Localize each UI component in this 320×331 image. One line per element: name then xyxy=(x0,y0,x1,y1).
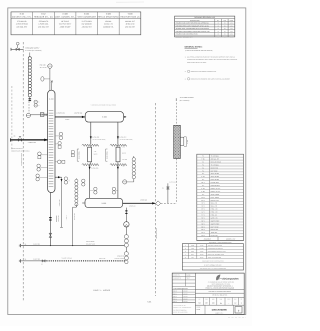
label to flare xyxy=(176,96,194,102)
traced line dots xyxy=(46,260,125,261)
svg-text:1 FL: 1 FL xyxy=(94,151,97,153)
svg-text:REV 2: REV 2 xyxy=(173,296,177,298)
pipe feed xyxy=(10,138,47,141)
svg-text:(TO E-1A TUBE SIDE): (TO E-1A TUBE SIDE) xyxy=(92,139,106,141)
company address xyxy=(208,281,234,285)
svg-text:JD: JD xyxy=(217,25,219,27)
svg-text:VENT CONDENSER: VENT CONDENSER xyxy=(77,16,96,19)
svg-text:JD: JD xyxy=(217,34,219,36)
svg-text:AirComposites: AirComposites xyxy=(221,278,239,281)
inline trap strainer xyxy=(40,113,44,117)
svg-text:3-OVHD-101: 3-OVHD-101 xyxy=(56,112,65,114)
svg-text:2-PRD-110: 2-PRD-110 xyxy=(140,200,147,202)
svg-text:XFER PUMP: XFER PUMP xyxy=(211,173,219,175)
svg-text:RECOVERED PRODUCT OUT: RECOVERED PRODUCT OUT xyxy=(208,251,226,253)
equipment column E-12 xyxy=(34,13,53,29)
valve bottoms xyxy=(49,233,52,237)
svg-text:P-1: P-1 xyxy=(202,173,204,175)
pipe product outlet xyxy=(123,202,156,204)
pipe product dashed continuation xyxy=(161,202,177,204)
equipment column C-100 xyxy=(55,13,76,29)
exchanger E-1A body xyxy=(88,145,92,164)
valve drain branch xyxy=(167,187,170,189)
end flanges FA-1 xyxy=(29,98,32,101)
svg-text:SOLVENT VAPOR LINE: SOLVENT VAPOR LINE xyxy=(208,245,222,247)
pipe flare dashed upper xyxy=(176,103,178,126)
svg-text:4/09 JD: 4/09 JD xyxy=(183,296,187,298)
svg-text:LO: LO xyxy=(41,264,43,266)
label drop A xyxy=(92,137,106,141)
equipment summary table xyxy=(11,12,141,35)
pipe chain riser xyxy=(29,53,31,102)
svg-text:THIS DRAWING IS THE: THIS DRAWING IS THE xyxy=(173,305,186,307)
svg-text:4/09 JD: 4/09 JD xyxy=(183,301,187,303)
svg-text:E-1AB: E-1AB xyxy=(200,248,204,250)
flex hose top E-1B xyxy=(110,144,126,146)
svg-text:4/09 JD: 4/09 JD xyxy=(183,293,187,295)
svg-text:DESCRIPTION: DESCRIPTION xyxy=(190,20,200,22)
svg-text:E-1B: E-1B xyxy=(201,191,204,193)
svg-text:ALL PIPING SHOWN OUTSIDE OF TH: ALL PIPING SHOWN OUTSIDE OF THE DASHED B… xyxy=(187,56,235,58)
svg-text:EAST GREENBUSH, NY 12061: EAST GREENBUSH, NY 12061 xyxy=(212,283,231,285)
svg-text:COPYRIGHT 2009 - ALL RIGHTS RE: COPYRIGHT 2009 - ALL RIGHTS RESERVED xyxy=(200,268,226,270)
instrument bubble LG xyxy=(123,180,134,184)
svg-text:REFLUX DRUM: REFLUX DRUM xyxy=(211,161,222,163)
label E-1A right xyxy=(94,151,98,156)
svg-text:BACK: BACK xyxy=(122,152,126,154)
instrument squares TW xyxy=(71,151,74,157)
instrument bubble PSE xyxy=(48,64,52,68)
svg-text:SP-1: SP-1 xyxy=(201,220,204,222)
svg-text:DRAWING REVISION LOG: DRAWING REVISION LOG xyxy=(194,16,215,19)
equipment column T-100 xyxy=(120,13,139,29)
svg-text:CTRL 1 IN: CTRL 1 IN xyxy=(211,212,218,214)
battery limit dashed line left xyxy=(22,42,24,302)
svg-text:FILL/MU CONN.: FILL/MU CONN. xyxy=(115,258,125,260)
svg-text:PROCESS & INSTRUMENTATION DIAG: PROCESS & INSTRUMENTATION DIAGRAM xyxy=(206,288,235,290)
svg-text:FC: FC xyxy=(14,135,16,137)
logo xyxy=(216,275,239,281)
svg-text:TV-1: TV-1 xyxy=(201,214,204,216)
svg-text:SHT: SHT xyxy=(234,299,237,301)
title block left column xyxy=(172,273,195,314)
svg-text:XV-1: XV-1 xyxy=(201,203,204,205)
svg-text:OPERATOR: OPERATOR xyxy=(117,255,124,257)
svg-text:SET 14.7P: SET 14.7P xyxy=(40,67,47,69)
svg-text:PSE-100: PSE-100 xyxy=(40,64,46,66)
svg-text:TEMP GA.: TEMP GA. xyxy=(211,232,218,234)
connector diamond xyxy=(156,201,161,206)
bridle drain pipe xyxy=(73,205,77,246)
svg-text:LV-1: LV-1 xyxy=(202,212,205,214)
svg-text:REV 4: REV 4 xyxy=(173,301,177,303)
instrument cluster TI-104 xyxy=(55,132,63,139)
junction dot bottoms xyxy=(50,245,51,246)
svg-text:CONDENSATE / REFLUX: CONDENSATE / REFLUX xyxy=(208,248,223,250)
svg-text:V-100: V-100 xyxy=(200,245,204,247)
instrument cluster LT-101 xyxy=(38,152,48,159)
svg-text:COLUMN C-100 AND AUXILIARIES: COLUMN C-100 AND AUXILIARIES xyxy=(209,291,231,293)
bracket label bottoms xyxy=(56,215,60,222)
svg-text:2-RCY-112: 2-RCY-112 xyxy=(99,258,106,260)
valve feed xyxy=(18,137,22,142)
svg-text:CONDENSER: CONDENSER xyxy=(211,185,220,187)
svg-text:BALL 2 IN: BALL 2 IN xyxy=(211,206,218,208)
svg-text:2-CND-103: 2-CND-103 xyxy=(92,137,99,139)
level bridle line xyxy=(133,156,135,182)
svg-text:CW S/R: CW S/R xyxy=(122,159,127,161)
svg-text:SOLVENT STILL KTL.: SOLVENT STILL KTL. xyxy=(12,16,32,19)
instrument bubbles bridle top xyxy=(82,179,85,186)
svg-text:T-3: T-3 xyxy=(202,170,204,172)
svg-text:DWG 1 : M2000: DWG 1 : M2000 xyxy=(93,289,110,292)
svg-text:E-101: E-101 xyxy=(84,13,89,16)
pipe vent riser xyxy=(49,68,51,90)
svg-text:(NOTE 1): (NOTE 1) xyxy=(119,260,125,262)
svg-text:40 CAMBRIDGE VALLEY DRIVE, SUI: 40 CAMBRIDGE VALLEY DRIVE, SUITE 200 xyxy=(208,281,234,283)
pipe side draw xyxy=(55,176,63,227)
svg-text:FSCM: FSCM xyxy=(227,299,230,301)
svg-text:PROPERTY OF AIRCOMPOSITES.: PROPERTY OF AIRCOMPOSITES. xyxy=(173,307,192,309)
vessel V-200 xyxy=(85,198,123,207)
svg-text:RECYCLE / MAKEUP LINE: RECYCLE / MAKEUP LINE xyxy=(208,254,224,256)
svg-text:T-2: T-2 xyxy=(202,164,204,166)
svg-text:PV-1: PV-1 xyxy=(201,209,204,211)
pipe E-1B outlet xyxy=(117,165,119,199)
label chain bubbles xyxy=(38,102,40,108)
valve traced line xyxy=(42,260,45,262)
svg-text:REV 3: REV 3 xyxy=(173,299,177,301)
svg-text:RECEIVER TANK (J): RECEIVER TANK (J) xyxy=(120,16,139,19)
svg-text:REFLUX DRUM HORIZ.: REFLUX DRUM HORIZ. xyxy=(97,16,119,19)
svg-text:UTILITY CONNECTION LIST: UTILITY CONNECTION LIST xyxy=(204,264,222,266)
svg-text:NC: NC xyxy=(162,188,164,190)
svg-text:STEAM TRACED: STEAM TRACED xyxy=(62,257,73,259)
svg-text:FROM PLANT (BY OTHERS): FROM PLANT (BY OTHERS) xyxy=(11,150,30,152)
svg-text:SIGHT PORT: SIGHT PORT xyxy=(211,223,220,225)
title block bottom row xyxy=(196,305,242,314)
svg-text:GATE 2 IN: GATE 2 IN xyxy=(211,217,218,219)
drum right nozzle xyxy=(124,116,127,118)
label vent instrument xyxy=(40,64,47,69)
battery limit dashed line inner xyxy=(11,86,13,150)
svg-text:BY: BY xyxy=(217,20,219,22)
svg-text:INSUL.: INSUL. xyxy=(65,119,70,121)
svg-text:SOLVENT RECOVERY SYSTEM NO. 2: SOLVENT RECOVERY SYSTEM NO. 2 xyxy=(207,286,233,288)
svg-text:4/09: 4/09 xyxy=(230,31,233,33)
level bridle V-200 xyxy=(75,178,78,207)
equipment column E-10 xyxy=(12,13,32,29)
pipe bottoms transfer xyxy=(21,245,127,247)
svg-text:SPENT SOLVENT: SPENT SOLVENT xyxy=(11,148,23,150)
svg-text:CHK: CHK xyxy=(223,20,226,22)
svg-text:E-1: E-1 xyxy=(202,185,204,187)
column trays xyxy=(49,111,54,187)
svg-text:INDICATES INSTRUMENT AIR SUPPL: INDICATES INSTRUMENT AIR SUPPLY, 80 PSIG… xyxy=(191,78,231,80)
svg-text:RECEIVER: RECEIVER xyxy=(211,167,218,169)
svg-text:V-2: V-2 xyxy=(202,167,204,169)
svg-text:PRD: PRD xyxy=(191,251,194,253)
title block grid row xyxy=(195,298,244,306)
instrument bubbles pump discharge xyxy=(124,235,128,248)
svg-text:(TO E-1B TUBE SIDE): (TO E-1B TUBE SIDE) xyxy=(119,139,133,141)
svg-text:RECOVERED: RECOVERED xyxy=(86,241,94,243)
pipe drain branch xyxy=(167,183,169,203)
column top nozzle xyxy=(51,81,53,91)
svg-text:P-1A: P-1A xyxy=(201,176,204,178)
exchanger E-1B body xyxy=(116,145,120,164)
junction dot drain xyxy=(72,245,73,246)
bracket label E-1B xyxy=(106,149,109,161)
equipment column E-101 xyxy=(77,13,96,29)
svg-text:E-1B COND.: E-1B COND. xyxy=(107,151,109,160)
svg-text:SHOWN FOR REFERENCE ONLY AND S: SHOWN FOR REFERENCE ONLY AND SHALL BE FI… xyxy=(187,59,237,61)
svg-text:FLEX. HOSE: FLEX. HOSE xyxy=(211,197,220,199)
svg-text:CUSTOMER APPROVAL: CUSTOMER APPROVAL xyxy=(173,288,188,290)
svg-text:SIGHT PORT: SIGHT PORT xyxy=(211,220,220,222)
level bridle gauges xyxy=(132,158,135,179)
battery limit dashed line right xyxy=(154,103,156,296)
svg-text:4/09: 4/09 xyxy=(230,36,233,38)
svg-text:SCALE:: SCALE: xyxy=(196,307,201,309)
vessel left nozzle xyxy=(82,202,85,204)
svg-text:DATE: DATE xyxy=(230,20,233,22)
svg-text:DO NOT SCALE DRAWING.: DO NOT SCALE DRAWING. xyxy=(173,312,188,314)
svg-text:400 GAL JKT: 400 GAL JKT xyxy=(211,159,220,161)
sheet edge mark bottom xyxy=(228,317,246,319)
pipe traced recycle xyxy=(19,259,46,262)
label nitrogen supply xyxy=(25,47,42,52)
instrument bubbles beside chain xyxy=(34,100,38,107)
svg-text:CND: CND xyxy=(191,248,194,250)
svg-text:ASSEMBLY: ASSEMBLY xyxy=(204,238,211,240)
svg-text:BALL 2 IN: BALL 2 IN xyxy=(211,203,218,205)
svg-text:TM: TM xyxy=(224,28,226,30)
pipe pump suction xyxy=(125,208,127,264)
svg-text:TM: TM xyxy=(224,31,226,33)
svg-text:TM: TM xyxy=(224,34,226,36)
svg-text:PR-09-41 / JOB 2276-B: PR-09-41 / JOB 2276-B xyxy=(212,295,227,297)
svg-text:NONE: NONE xyxy=(196,309,200,311)
svg-text:4/09 JD: 4/09 JD xyxy=(183,299,187,301)
svg-text:RD-1: RD-1 xyxy=(201,226,205,228)
designation table xyxy=(182,244,243,270)
svg-text:CUSTOMER SCOPE: CUSTOMER SCOPE xyxy=(21,153,23,166)
vent condenser E-101 xyxy=(174,125,181,158)
instrument bubbles E-1B outlet xyxy=(112,187,118,194)
svg-text:VENDOR SCOPE: VENDOR SCOPE xyxy=(156,228,158,239)
svg-text:RUPT. DISC: RUPT. DISC xyxy=(211,226,219,228)
svg-text:COND. 21 FT2: COND. 21 FT2 xyxy=(211,191,221,193)
svg-text:E-12: E-12 xyxy=(41,13,45,16)
svg-text:T-1: T-1 xyxy=(202,156,204,158)
svg-text:HV-1: HV-1 xyxy=(201,217,204,219)
pipe drop to seal pot xyxy=(28,101,30,113)
svg-text:BACK: BACK xyxy=(94,153,98,155)
svg-text:V-100 REFLUX DRUM 150 GAL HORI: V-100 REFLUX DRUM 150 GAL HORIZ xyxy=(91,105,117,107)
pipe flare dashed lower xyxy=(176,159,178,204)
svg-text:4/09: 4/09 xyxy=(230,25,233,27)
pipe column bottoms xyxy=(49,193,51,246)
svg-text:2-PMP-113: 2-PMP-113 xyxy=(129,205,136,207)
flex hose bottom E-1B xyxy=(110,164,126,166)
pump P-100 xyxy=(124,222,129,227)
instrument cluster LI-102 xyxy=(37,164,48,171)
svg-text:XV-2: XV-2 xyxy=(201,206,204,208)
svg-text:CHECKED RH: CHECKED RH xyxy=(173,278,181,280)
svg-text:E-1A: E-1A xyxy=(201,188,204,190)
svg-text:E-10: E-10 xyxy=(20,13,24,16)
svg-text:SIZE: SIZE xyxy=(220,299,223,301)
svg-text:JD: JD xyxy=(217,23,219,25)
svg-text:4/09 JD: 4/09 JD xyxy=(183,291,187,293)
svg-text:VNT: VNT xyxy=(191,257,194,259)
svg-text:JD: JD xyxy=(217,31,219,33)
svg-text:DAY TANK: DAY TANK xyxy=(211,170,218,172)
svg-text:1 FL: 1 FL xyxy=(122,146,125,148)
flame arrestor element stack FA-1 xyxy=(28,57,31,97)
equipment column V-100 xyxy=(97,13,119,29)
instrument cluster PT-105 xyxy=(55,142,61,149)
svg-text:4/09: 4/09 xyxy=(230,34,233,36)
instrument bubbles pump lower xyxy=(124,252,128,264)
svg-text:JD: JD xyxy=(217,28,219,30)
svg-text:ALL RIGHTS RESERVED.: ALL RIGHTS RESERVED. xyxy=(173,309,187,311)
svg-text:RCY: RCY xyxy=(191,254,194,256)
control valve PV-1 xyxy=(16,42,19,50)
label drop B xyxy=(119,137,133,141)
svg-text:TIE: TIE xyxy=(24,259,26,261)
instrument cluster AT-106 xyxy=(55,160,65,164)
svg-text:TEMP: TEMP xyxy=(186,278,190,280)
off page connector bottoms xyxy=(19,244,20,247)
svg-text:REV 1: REV 1 xyxy=(173,293,177,295)
svg-text:3-OVHD-102: 3-OVHD-102 xyxy=(74,112,83,114)
svg-text:ENG: ENG xyxy=(212,299,215,301)
bracket label vent condenser xyxy=(184,137,189,147)
title block frame xyxy=(172,273,244,314)
pipe drum to exchanger A xyxy=(90,122,92,144)
svg-text:TM: TM xyxy=(224,36,226,38)
line list table xyxy=(197,154,244,240)
pipe overhead vapor xyxy=(55,116,85,118)
svg-text:FA-1: FA-1 xyxy=(201,182,204,184)
instrument bubble PI on riser xyxy=(41,77,50,81)
svg-text:E-101: E-101 xyxy=(187,140,189,144)
svg-text:E-1A COND.: E-1A COND. xyxy=(78,151,80,159)
svg-text:COND. 21 FT2: COND. 21 FT2 xyxy=(211,188,221,190)
svg-text:DWG 20-M2000: DWG 20-M2000 xyxy=(212,309,228,312)
svg-text:V-100: V-100 xyxy=(106,13,111,16)
svg-text:V-200: V-200 xyxy=(101,202,106,205)
instrument cluster LC-103 xyxy=(36,174,48,181)
drum V-100 xyxy=(85,112,123,123)
svg-text:INDICATES SOFTWARE CONNECTION.: INDICATES SOFTWARE CONNECTION. xyxy=(191,71,217,73)
svg-text:CTRL 1 IN: CTRL 1 IN xyxy=(211,209,218,211)
vent condenser side box xyxy=(180,137,184,145)
svg-text:2-CND-105: 2-CND-105 xyxy=(91,167,98,169)
svg-text:FEED PUMP: FEED PUMP xyxy=(211,179,219,181)
svg-text:1-SMP-108: 1-SMP-108 xyxy=(59,199,61,206)
svg-text:TM: TM xyxy=(224,25,226,27)
svg-text:PG-1: PG-1 xyxy=(201,229,205,231)
label feed source xyxy=(11,148,30,152)
svg-text:2-BTM-109: 2-BTM-109 xyxy=(58,215,60,222)
svg-text:P-2: P-2 xyxy=(202,179,204,181)
label traced right block xyxy=(115,255,125,262)
svg-text:FL-B: FL-B xyxy=(201,197,204,199)
svg-text:2-CND-104: 2-CND-104 xyxy=(119,137,126,139)
svg-text:VENT COND.: VENT COND. xyxy=(211,194,220,196)
svg-text:V-1: V-1 xyxy=(202,161,204,163)
drawing revision log table xyxy=(175,16,235,38)
svg-text:ABBREV. LIST: ABBREV. LIST xyxy=(226,238,235,240)
svg-text:4/09: 4/09 xyxy=(230,28,233,30)
flex hose bottom E-1A xyxy=(82,164,99,166)
column C-100 xyxy=(48,90,55,192)
drawing title xyxy=(195,286,244,298)
flange ticks xyxy=(45,114,46,116)
svg-text:FLAME: FLAME xyxy=(186,275,190,277)
svg-text:PRESS GA.: PRESS GA. xyxy=(211,229,219,231)
svg-text:DR: DR xyxy=(199,299,201,301)
svg-text:CONT. CONDEN. KTL.: CONT. CONDEN. KTL. xyxy=(55,16,76,19)
svg-text:1-VNT-115: 1-VNT-115 xyxy=(169,182,176,184)
svg-text:1/2: 1/2 xyxy=(234,303,236,305)
svg-text:T-1B: T-1B xyxy=(201,159,204,161)
svg-text:AND INSTALLED BY OTHERS.: AND INSTALLED BY OTHERS. xyxy=(187,62,207,64)
flex hose top E-1A xyxy=(82,144,99,146)
abbrev header cells xyxy=(197,237,244,244)
instrument bubbles side draw xyxy=(64,177,68,184)
svg-text:CHK: CHK xyxy=(205,299,208,301)
instrument bubbles E-1A outlet xyxy=(90,187,98,194)
general notes block xyxy=(185,46,238,81)
svg-text:C-100: C-100 xyxy=(49,97,54,100)
svg-text:3/4-DR-116: 3/4-DR-116 xyxy=(74,213,76,220)
pipe seal pot to column xyxy=(31,114,48,116)
svg-text:P-100: P-100 xyxy=(200,254,204,256)
svg-text:PS-1: PS-1 xyxy=(201,200,204,202)
svg-text:1-DR-114: 1-DR-114 xyxy=(66,214,68,220)
svg-text:E-101: E-101 xyxy=(200,257,204,259)
pipe drum to exchanger B xyxy=(117,122,119,144)
svg-text:TK, 150 GAL: TK, 150 GAL xyxy=(211,164,220,166)
svg-text:DRAWN TM: DRAWN TM xyxy=(173,275,179,277)
svg-text:C-100: C-100 xyxy=(62,13,67,16)
svg-text:SOLVENT HDR: SOLVENT HDR xyxy=(86,243,95,245)
instrument bubble seal pot xyxy=(26,113,30,117)
svg-text:XFER PUMP: XFER PUMP xyxy=(211,176,219,178)
svg-text:2-RCY-112: 2-RCY-112 xyxy=(33,259,40,261)
pipe E-1A outlet xyxy=(89,165,91,199)
svg-text:V-100: V-100 xyxy=(102,115,107,118)
svg-text:PRESS. SW.: PRESS. SW. xyxy=(211,200,220,202)
bracket label E-1A xyxy=(77,149,80,161)
pipe nitrogen supply xyxy=(11,48,24,50)
svg-text:TM: TM xyxy=(224,23,226,25)
flange pair bottoms xyxy=(49,217,51,221)
flange pair pump xyxy=(125,210,127,214)
svg-text:TIE: TIE xyxy=(24,243,26,245)
svg-text:SC: SC xyxy=(69,180,71,182)
svg-text:2-BTM-111: 2-BTM-111 xyxy=(33,243,40,245)
svg-text:VENT TO FLARE HDR: VENT TO FLARE HDR xyxy=(208,257,221,259)
sheet edge mark top xyxy=(116,1,144,3)
svg-text:4/09: 4/09 xyxy=(230,23,233,25)
svg-text:TK, 400 GAL: TK, 400 GAL xyxy=(211,156,220,158)
svg-text:SP-2: SP-2 xyxy=(201,223,204,225)
